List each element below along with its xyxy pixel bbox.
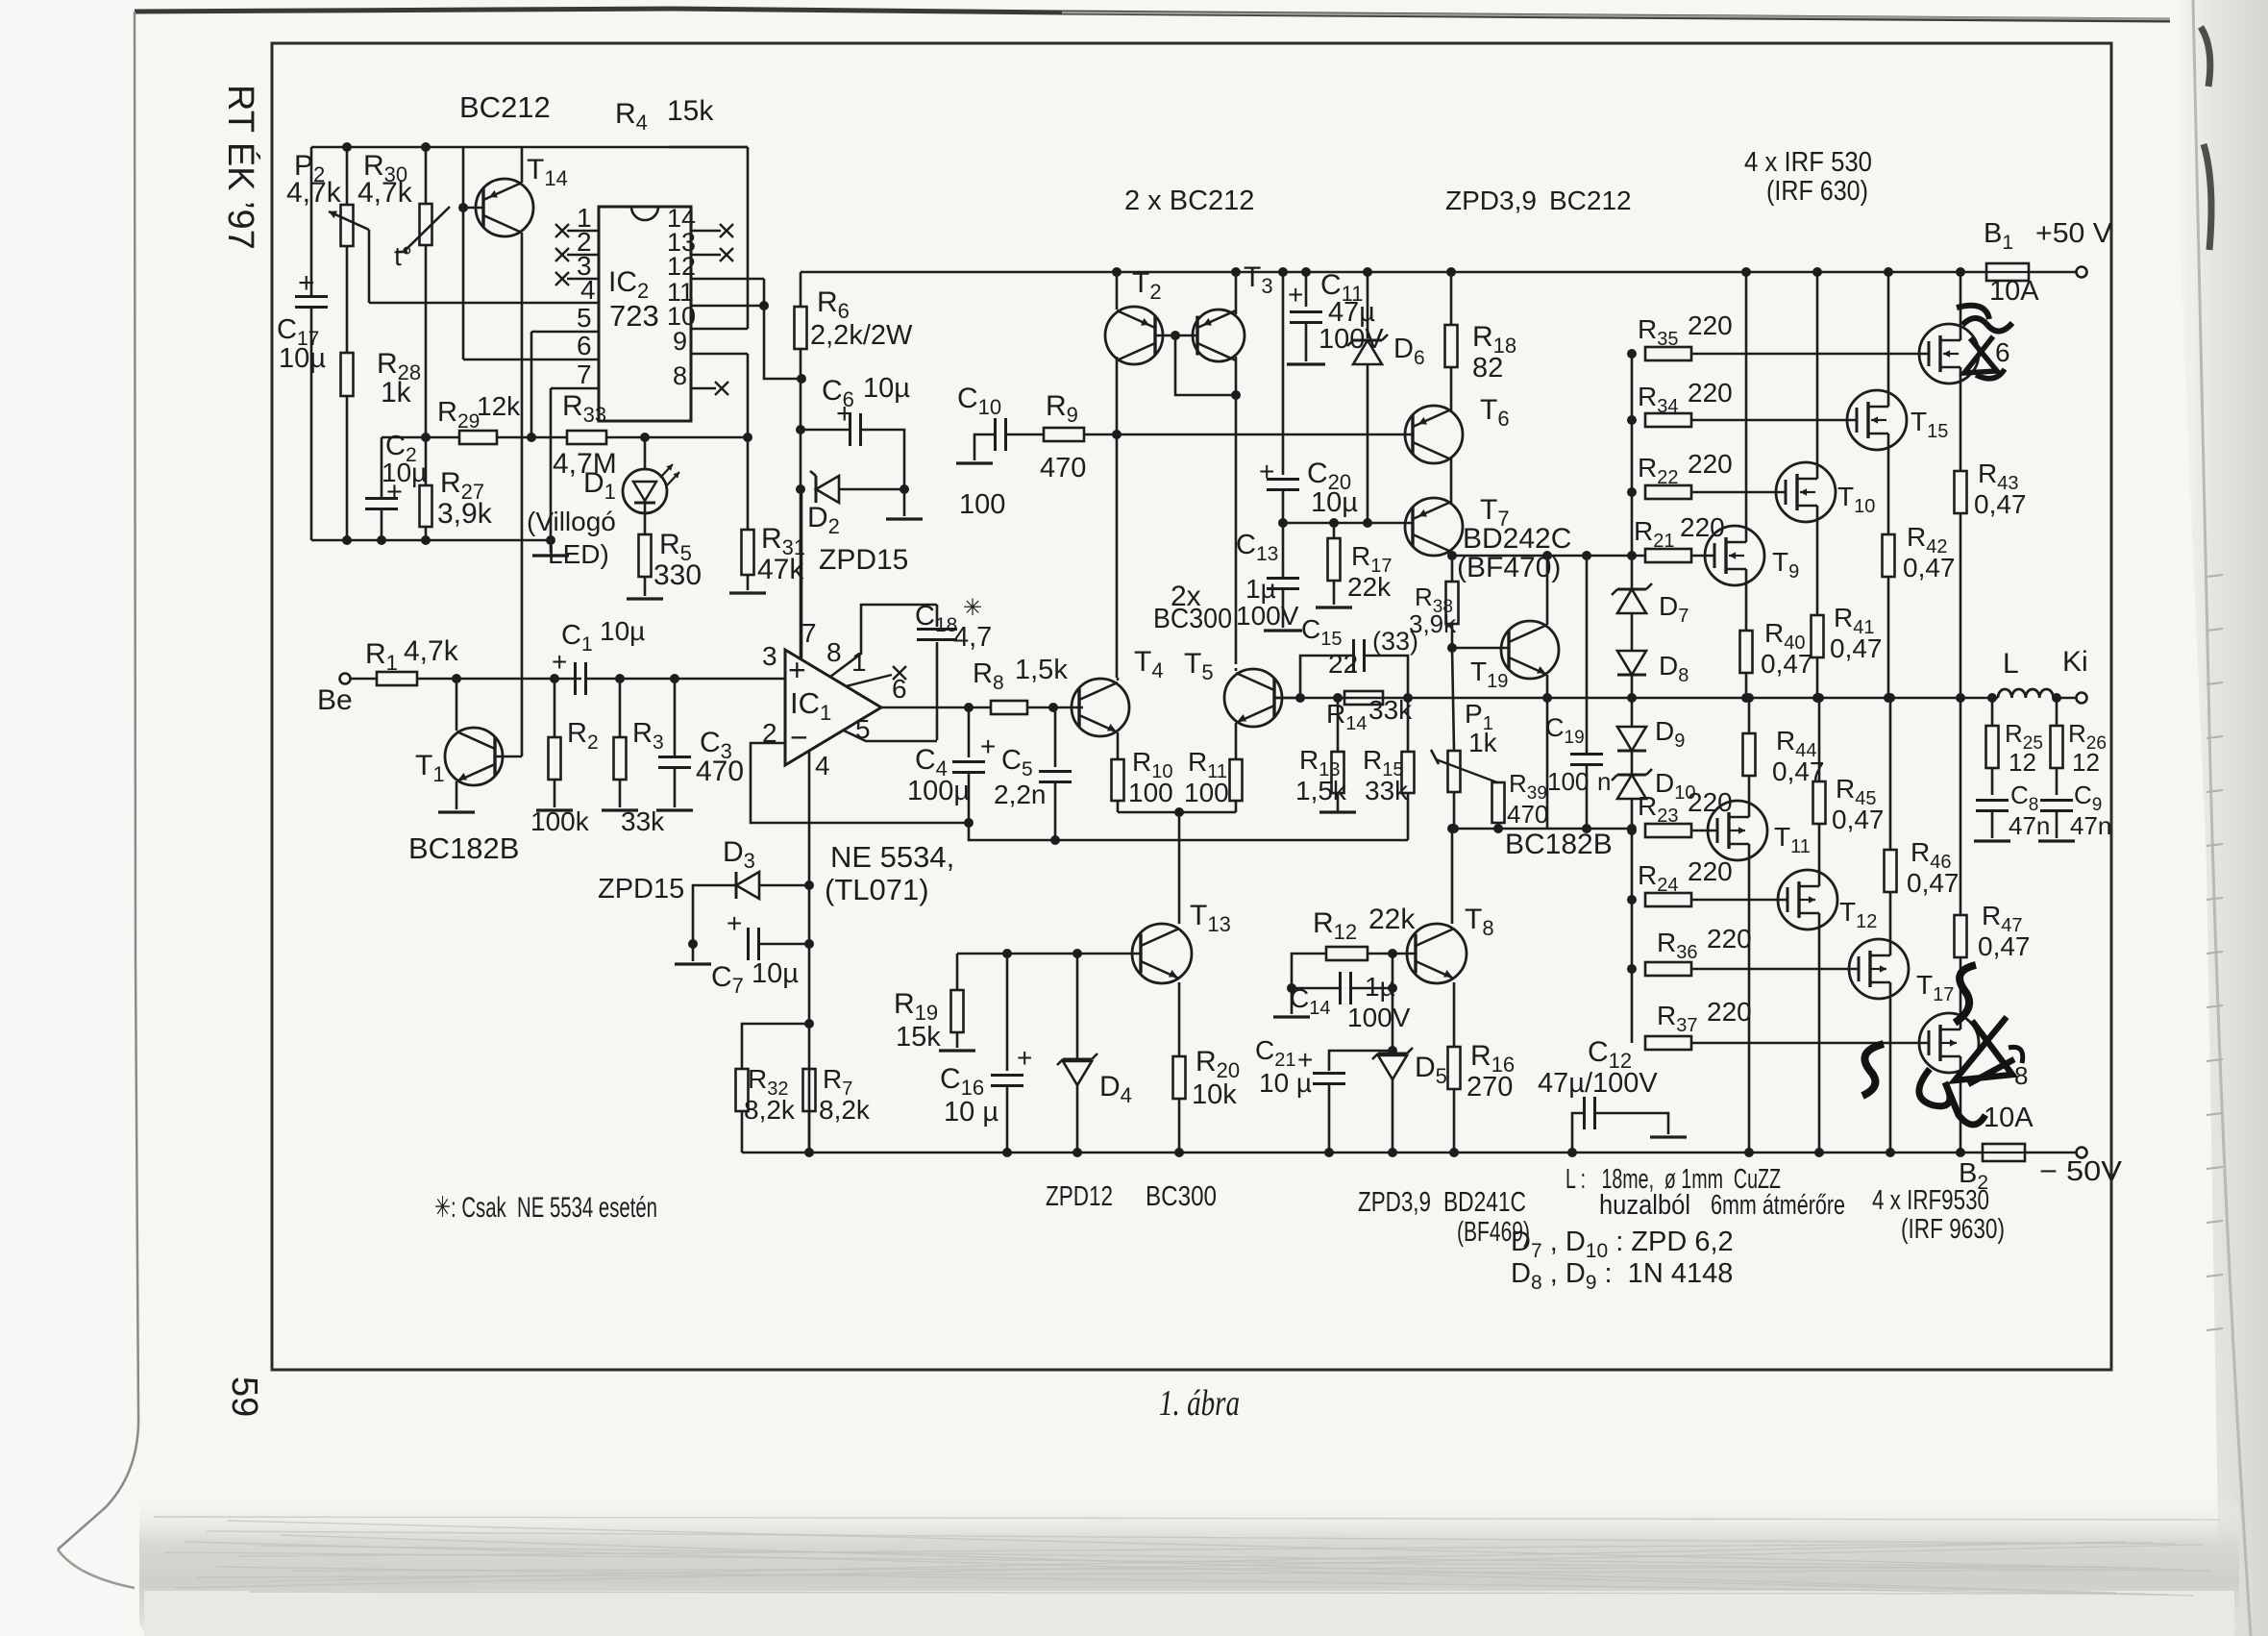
svg-text:ZPD15: ZPD15	[819, 544, 908, 576]
wire ladder vertical top	[1631, 354, 1634, 589]
svg-text:C1: C1	[561, 620, 601, 656]
wire C16 top	[1006, 954, 1009, 1071]
diode D8	[1617, 651, 1646, 675]
svg-text:8: 8	[2014, 1061, 2028, 1090]
wire Be to R1	[351, 678, 377, 681]
wire R38 top	[1451, 556, 1454, 582]
node D1 top	[640, 433, 650, 442]
ground C3	[656, 808, 693, 811]
node T8 coll	[1447, 824, 1457, 833]
wire R17 top	[1333, 523, 1336, 538]
ground D2 C6	[886, 517, 923, 520]
wire P2 top lead	[346, 147, 349, 205]
wire block ground rail	[311, 539, 551, 542]
svg-text:2,2n: 2,2n	[994, 780, 1047, 809]
wire T5 base stub	[1274, 697, 1300, 700]
wire T19 collector	[1546, 556, 1549, 625]
wire T15 drain	[1887, 272, 1890, 390]
wire R1 to C1	[417, 678, 581, 681]
wire R6 top corner	[800, 272, 802, 307]
svg-text:D4: D4	[1099, 1071, 1140, 1107]
svg-text:Ki: Ki	[2062, 646, 2088, 678]
svg-text:100V: 100V	[1236, 601, 1299, 631]
wire C9 gnd	[2056, 811, 2058, 838]
svg-text:723: 723	[609, 299, 659, 333]
wire T14 collector down	[521, 233, 524, 756]
svg-text:BC300: BC300	[1153, 604, 1232, 634]
resistor R46	[1885, 850, 1897, 892]
svg-text:+: +	[1259, 457, 1274, 486]
transistor T2	[1105, 307, 1163, 364]
resistor R5	[639, 534, 652, 577]
wire R2 top	[554, 679, 556, 737]
node C1 left	[550, 674, 559, 683]
svg-text:59: 59	[224, 1376, 264, 1417]
resistor R1	[377, 672, 417, 685]
node R46 net2	[1886, 693, 1895, 703]
svg-text:100V: 100V	[1347, 1003, 1411, 1032]
wire T10 source	[1816, 522, 1819, 615]
resistor R17	[1328, 538, 1341, 581]
IC2 pin 5 line	[531, 331, 599, 334]
P1 wiper arrow	[1436, 759, 1497, 782]
svg-text:huzalból: huzalból	[1599, 1190, 1690, 1221]
wire B2 to term	[2025, 1152, 2076, 1154]
svg-text:7: 7	[577, 359, 592, 389]
wire T19 base	[1452, 647, 1509, 650]
wire T10 drain	[1816, 272, 1819, 462]
svg-text:100: 100	[1184, 778, 1229, 807]
wire T2 emitter	[1116, 272, 1119, 310]
wire T2 base	[1155, 335, 1197, 337]
wire pin9 to R31	[747, 354, 750, 530]
resistor R43	[1955, 471, 1967, 513]
svg-text:D3: D3	[723, 836, 763, 873]
node gnd R27	[421, 535, 431, 545]
wire D2 gnd stub	[903, 489, 906, 516]
wire R12 left	[1292, 954, 1326, 1014]
wire R30 top lead	[425, 147, 428, 204]
IC2 pin 14 stub	[691, 230, 721, 233]
wire R28 bottom	[346, 396, 349, 540]
svg-text:ZPD15: ZPD15	[598, 874, 684, 905]
wire pin8 to C18	[830, 605, 937, 677]
resistor R23	[1645, 824, 1691, 837]
wire R12 right	[1368, 953, 1416, 955]
capacitor C17	[295, 295, 328, 298]
node R25 top	[1987, 693, 1997, 703]
wire R8 right	[1027, 706, 1083, 709]
wire R19 top	[956, 954, 959, 990]
wire C10 gnd lead	[974, 434, 995, 460]
svg-text:D5: D5	[1415, 1052, 1455, 1088]
resistor R20	[1173, 1056, 1186, 1099]
IC2 pin 13 stub	[691, 254, 721, 257]
wire R19 bottom	[956, 1032, 959, 1048]
wire IC1 out to R8	[881, 706, 991, 709]
wire T1 base	[495, 756, 522, 758]
IC2 pin 12 line	[691, 278, 764, 281]
resistor R12	[1326, 947, 1368, 960]
svg-text:R4: R4	[615, 98, 655, 135]
svg-text:1,5k: 1,5k	[1015, 655, 1068, 685]
wire R23 gate	[1691, 830, 1717, 832]
resistor R36	[1645, 962, 1691, 976]
wire output rail	[1274, 697, 1998, 700]
node -rail T18 drain	[1956, 1148, 1965, 1157]
svg-text:8: 8	[826, 637, 842, 667]
wire R27 bottom	[425, 527, 428, 540]
pen scribble T16	[1962, 318, 2012, 332]
IC2 pin 6 rise	[462, 208, 465, 359]
svg-text:100: 100	[1547, 767, 1589, 796]
thermistor R30	[420, 204, 432, 245]
resistor R32	[736, 1069, 749, 1111]
svg-text:8: 8	[673, 361, 687, 390]
node gnd rail end	[546, 535, 555, 545]
resistor R9	[1044, 428, 1084, 441]
node Ki	[2052, 693, 2061, 703]
wire C11 top	[1305, 272, 1308, 307]
wire P2 to R28	[346, 246, 349, 353]
svg-text:✳: ✳	[963, 595, 982, 621]
ground block A	[532, 554, 569, 557]
ground C10	[956, 461, 993, 464]
node R14 right	[1403, 693, 1413, 703]
wire R38 bottom	[1451, 624, 1454, 648]
svg-text:220: 220	[1688, 378, 1733, 408]
wire R32 bottom	[741, 1111, 744, 1153]
node R8 out	[1048, 703, 1058, 712]
IC2 pin 7 drop	[550, 388, 553, 540]
IC2 pin 2 stub	[567, 254, 599, 257]
wire R33 right	[606, 436, 748, 439]
node R24	[1627, 895, 1637, 905]
svg-text:R8: R8	[973, 658, 1012, 694]
svg-text:4,7: 4,7	[953, 622, 992, 653]
svg-text:+: +	[727, 908, 742, 938]
resistor R39	[1492, 782, 1505, 823]
wire R15 top	[1407, 698, 1410, 752]
wire C19 top	[1586, 556, 1589, 754]
wire R44 bottom	[1748, 776, 1751, 801]
wire T8 emitter	[1453, 982, 1456, 1047]
wire T6 coll to T7 emitter	[1450, 458, 1453, 504]
svg-text:47n: 47n	[2070, 811, 2111, 840]
wire T8 collector	[1451, 829, 1454, 924]
resistor R40	[1740, 631, 1753, 673]
node R23	[1627, 826, 1637, 835]
svg-text:IC1: IC1	[790, 686, 840, 725]
svg-text:6mm átmérőre: 6mm átmérőre	[1711, 1190, 1845, 1221]
svg-text:100: 100	[1128, 778, 1173, 807]
wire C5 bottom	[1054, 782, 1057, 840]
svg-text:10µ: 10µ	[752, 958, 799, 989]
IC2 pin 11 net to R6	[764, 306, 801, 379]
node T19 base	[1447, 643, 1457, 653]
wire R10 bottom	[1117, 801, 1120, 812]
resistor R45	[1813, 781, 1826, 824]
node C21 line	[1388, 1046, 1397, 1055]
ground under R31	[729, 591, 766, 594]
svg-text:ZPD3,9: ZPD3,9	[1358, 1187, 1431, 1218]
wire T14 base net vertical	[462, 147, 465, 208]
svg-text:0,47: 0,47	[1830, 633, 1883, 663]
wire ladder vertical bottom	[1631, 799, 1634, 1043]
node R22	[1627, 487, 1637, 497]
node R29 left	[421, 433, 431, 442]
IC2 pin 10 line	[691, 328, 748, 331]
node T2 coll R9	[1112, 430, 1122, 439]
svg-text:15k: 15k	[896, 1022, 941, 1053]
capacitor C1	[574, 662, 577, 695]
svg-text:R1: R1	[365, 638, 406, 675]
wire R5 bottom	[644, 577, 647, 596]
svg-text:22k: 22k	[1347, 572, 1392, 602]
wire R11 bottom	[1235, 801, 1238, 812]
resistor R2	[549, 737, 561, 780]
svg-text:2 x BC212: 2 x BC212	[1124, 186, 1254, 216]
wire C8 gnd	[1991, 811, 1994, 838]
node T3 rail	[1231, 267, 1241, 277]
node C11 rail	[1301, 267, 1311, 277]
svg-text:4: 4	[580, 275, 596, 305]
svg-text:10k: 10k	[1192, 1079, 1237, 1110]
wire T4 collector	[1117, 678, 1120, 681]
wire C6 left lead	[801, 429, 850, 432]
wire R27 top	[425, 437, 428, 485]
svg-text:4 x IRF9530: 4 x IRF9530	[1872, 1185, 1989, 1216]
node R34	[1627, 415, 1637, 425]
node -rail C21	[1324, 1148, 1334, 1157]
svg-text:10µ: 10µ	[1311, 487, 1358, 518]
wire D3 right	[759, 884, 809, 887]
MOSFET T12	[1778, 870, 1837, 930]
node T2 rail	[1112, 267, 1122, 277]
svg-text:D2: D2	[807, 502, 848, 538]
node diode mid	[1627, 693, 1637, 703]
resistor R28	[341, 353, 354, 396]
wire R20 bottom	[1178, 1099, 1181, 1153]
wire T1 emitter	[456, 781, 458, 809]
capacitor C13	[1267, 577, 1299, 580]
wire C17 bottom	[310, 308, 313, 540]
wire C13 bottom	[1282, 589, 1285, 628]
wire R47 bottom	[1960, 957, 1962, 1013]
node -rail T17 drain	[1886, 1148, 1895, 1157]
svg-text:(IRF 9630): (IRF 9630)	[1901, 1214, 2005, 1245]
wire R13 bottom	[1337, 793, 1340, 812]
zener D6	[1353, 340, 1382, 364]
wire P1 feed	[1452, 648, 1454, 751]
wire T9 drain	[1745, 272, 1748, 526]
wire T8 base drop	[1392, 954, 1394, 1051]
node R17 top	[1329, 518, 1339, 528]
svg-text:R2: R2	[567, 718, 606, 754]
wire D3 left	[693, 885, 736, 944]
wire T14 base	[463, 207, 483, 210]
IC2 pin 1 stub	[567, 230, 599, 233]
wire T19 emitter	[1546, 675, 1549, 698]
svg-text:BC212: BC212	[1549, 186, 1632, 215]
node R43 net2	[1956, 693, 1965, 703]
svg-text:3,9k: 3,9k	[437, 498, 493, 530]
node T14 base	[458, 203, 468, 212]
svg-text:n: n	[1597, 767, 1611, 796]
resistor R4	[622, 662, 625, 676]
resistor R44	[1743, 733, 1756, 776]
electrolytic C11	[1290, 310, 1322, 313]
wire T14 emitter to rail	[521, 147, 524, 183]
wire C7 right	[759, 943, 809, 946]
MOSFET T18	[1919, 1013, 1979, 1073]
wire R46 top	[1889, 698, 1892, 850]
resistor R10	[1112, 759, 1124, 801]
node R18 rail	[1446, 267, 1456, 277]
electrolytic C16	[991, 1074, 1023, 1077]
node gnd C17	[342, 535, 352, 545]
wire R43 bottom	[1960, 513, 1962, 698]
wire D4 bottom	[1076, 1085, 1079, 1153]
wire R37 gate	[1691, 1042, 1929, 1045]
wire R22 gate	[1691, 491, 1786, 494]
svg-text:10A: 10A	[1984, 1103, 2034, 1133]
resistor R3	[614, 737, 627, 780]
wire T16 source	[1960, 384, 1962, 471]
wire C3 top	[674, 679, 677, 756]
node bias ladder	[1627, 824, 1637, 833]
node pin11 pin12	[759, 301, 769, 310]
svg-text:15k: 15k	[667, 95, 714, 127]
MOSFET T9	[1705, 526, 1764, 585]
svg-text:L: L	[2003, 648, 2019, 680]
node pin5 rail	[527, 433, 536, 442]
resistor R24	[1645, 893, 1691, 906]
svg-text:47k: 47k	[757, 554, 804, 585]
svg-text:10µ: 10µ	[382, 458, 427, 487]
svg-text:1k: 1k	[1468, 728, 1498, 757]
svg-text:100: 100	[959, 489, 1005, 520]
wire R3 top	[619, 679, 622, 737]
wire T1 collector	[456, 679, 458, 731]
wire T4 emitter	[1117, 732, 1120, 759]
resistor R33	[567, 431, 606, 444]
svg-text:(IRF 630): (IRF 630)	[1766, 176, 1868, 207]
capacitor C10	[994, 418, 997, 451]
svg-text:0,47: 0,47	[1761, 649, 1813, 679]
node R31 R33 rail	[743, 433, 752, 442]
resistor R26	[2051, 726, 2063, 768]
wire C2 lead	[381, 437, 383, 498]
IC2 pin 6 line	[463, 359, 599, 361]
svg-text:2,2k/2W: 2,2k/2W	[810, 320, 913, 351]
node -rail R20	[1174, 1148, 1184, 1157]
node R36	[1627, 964, 1637, 974]
resistor R21	[1645, 549, 1691, 562]
wire +50V rail	[801, 271, 1986, 274]
svg-text:10 µ: 10 µ	[1259, 1068, 1312, 1098]
svg-text:0,47: 0,47	[1903, 553, 1956, 583]
wire C7 gnd	[692, 944, 695, 961]
svg-text:82: 82	[1472, 353, 1503, 384]
wire C12 left	[1572, 1113, 1584, 1153]
svg-text:D7 , D10 : ZPD 6,2: D7 , D10 : ZPD 6,2	[1511, 1227, 1734, 1262]
chassis C11	[1287, 362, 1325, 365]
svg-text:8,2k: 8,2k	[744, 1095, 796, 1125]
resistor R19	[951, 990, 964, 1032]
zener D7	[1617, 589, 1646, 613]
wire D6 bottom	[1367, 364, 1369, 523]
resistor R16	[1448, 1047, 1461, 1089]
svg-text:100µ: 100µ	[907, 776, 970, 806]
wire bias line	[1452, 828, 1632, 830]
node -rail C16	[1002, 1148, 1012, 1157]
wire pin2	[751, 743, 969, 823]
wire R42 bottom	[1887, 577, 1890, 698]
svg-text:NE 5534,: NE 5534,	[830, 840, 954, 874]
wire R2 bottom	[554, 780, 556, 807]
wire C2 bottom	[381, 509, 383, 540]
node P2 top	[342, 142, 352, 152]
transistor T3	[1193, 310, 1245, 361]
node T7 coll	[1447, 551, 1457, 560]
svg-text:10 µ: 10 µ	[944, 1097, 998, 1128]
MOSFET T15	[1847, 390, 1907, 450]
diode D3	[736, 872, 759, 899]
fuse B1	[1986, 263, 2029, 281]
wire R41 bottom	[1816, 657, 1819, 698]
node T15 rail	[1884, 267, 1893, 277]
electrolytic C20	[1267, 478, 1299, 481]
svg-text:1,5k: 1,5k	[1295, 776, 1347, 806]
wire L to Ki	[2053, 697, 2076, 700]
wire D7 D8	[1631, 613, 1634, 651]
wire C21 bottom	[1328, 1084, 1331, 1153]
transistor T6	[1405, 406, 1463, 463]
wire D1 top	[644, 437, 647, 470]
wire D4 lead	[1076, 954, 1079, 1059]
wire fb step	[969, 823, 1408, 840]
resistor R31	[742, 530, 754, 575]
node D3	[804, 880, 814, 890]
transistor T19	[1501, 621, 1559, 679]
wire R29 to R33	[497, 436, 567, 439]
inductor L	[1998, 689, 2054, 698]
transistor T4	[1072, 679, 1129, 736]
svg-text:+50 V: +50 V	[2035, 218, 2113, 249]
svg-text:4: 4	[815, 751, 830, 781]
svg-text:4 x IRF 530: 4 x IRF 530	[1744, 147, 1872, 178]
node -rail D5	[1388, 1148, 1397, 1157]
MOSFET T17	[1849, 939, 1909, 999]
wire -50V rail	[742, 1152, 1983, 1154]
capacitor C12	[1583, 1097, 1586, 1129]
capacitor C7	[747, 928, 750, 960]
node T8 base	[1388, 949, 1397, 958]
fuse B2	[1983, 1144, 2025, 1161]
capacitor C15	[1352, 639, 1355, 672]
svg-text:IC2: IC2	[608, 266, 657, 303]
node T3 coll tie	[1231, 390, 1241, 400]
terminal +50V	[2077, 267, 2087, 278]
svg-text:BC212: BC212	[459, 90, 551, 124]
MOSFET T16	[1919, 324, 1979, 384]
wire C20 top	[1282, 272, 1285, 475]
IC2 pin 7 line	[551, 387, 599, 390]
svg-text:10A: 10A	[1989, 276, 2039, 307]
wire R18 top	[1450, 272, 1453, 325]
wire T15 source	[1887, 450, 1890, 534]
